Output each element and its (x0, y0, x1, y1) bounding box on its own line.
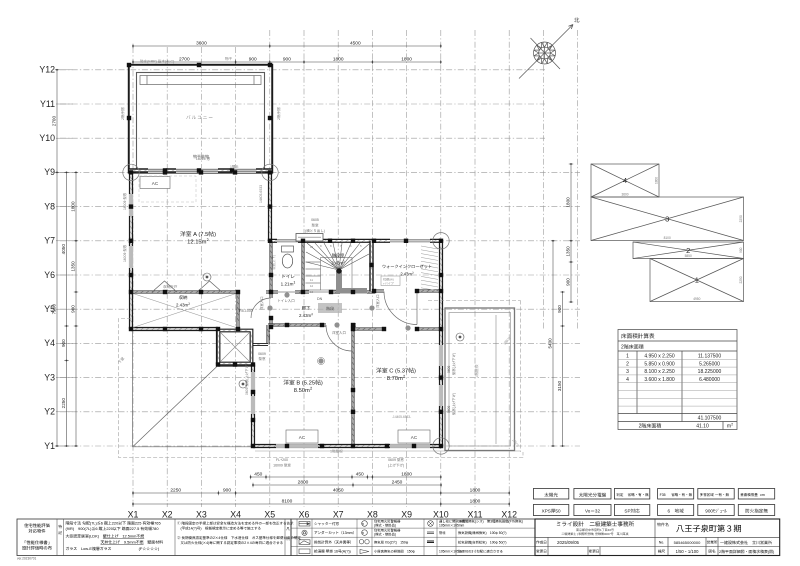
window left wall upper (129, 194, 134, 216)
svg-text:2.43m²: 2.43m² (400, 272, 414, 278)
interior wall room B step horizontal (253, 343, 268, 346)
WIC hatch band (421, 246, 438, 291)
AC dashed zone (139, 176, 196, 202)
interior wall room C top seg1 (353, 328, 384, 331)
svg-text:0609 型窓(上げ下げ): 0609 型窓(上げ下げ) (244, 364, 249, 395)
bottom dimension row 3 (132, 491, 510, 495)
door arc room B (326, 325, 352, 351)
svg-text:DN: DN (317, 297, 323, 302)
svg-text:585465000000: 585465000000 (674, 540, 701, 546)
svg-text:洋室入口: 洋室入口 (375, 294, 380, 308)
svg-text:8.50m²: 8.50m² (294, 385, 313, 394)
svg-text:1: 1 (626, 353, 629, 360)
legend icons col1 (299, 522, 310, 554)
exterior wall room B left (251, 365, 255, 447)
svg-text:Y11: Y11 (40, 97, 55, 110)
svg-text:8100: 8100 (664, 235, 671, 240)
svg-text:450: 450 (254, 471, 262, 478)
svg-text:ver.20230701: ver.20230701 (17, 556, 37, 561)
grid lines (60, 30, 580, 507)
svg-text:(上げ下げ): (上げ下げ) (388, 464, 404, 469)
svg-text:太陽光分電盤: 太陽光分電盤 (579, 492, 607, 498)
svg-text:型窓(上げ下げ): 型窓(上げ下げ) (451, 393, 456, 415)
balcony outer wall (129, 65, 272, 172)
window room C bottom (390, 444, 430, 449)
right balcony inner vertical (495, 315, 497, 444)
door arc room A entrance (251, 298, 271, 318)
svg-text:2025/09/05: 2025/09/05 (557, 540, 580, 546)
svg-text:5850: 5850 (685, 253, 692, 258)
svg-text:給湯器 壁掛 16号(A(?)): 給湯器 壁掛 16号(A(?)) (314, 548, 351, 554)
svg-text:2階手摺: 2階手摺 (120, 107, 126, 120)
svg-text:F35: F35 (660, 493, 666, 498)
svg-text:2.43m²: 2.43m² (176, 303, 190, 309)
svg-text:2階平面詳細図・面積求積表(図): 2階平面詳細図・面積求積表(図) (719, 549, 775, 555)
svg-text:1/50・1/100: 1/50・1/100 (676, 549, 699, 555)
svg-text:アンダーカット（13mm）: アンダーカット（13mm） (314, 530, 356, 536)
svg-text:防水(FRP) 笠木(ALC): 防水(FRP) 笠木(ALC) (140, 59, 174, 65)
svg-text:換気扇 XG(2穴) 150φ: 換気扇 XG(2穴) 150φ (374, 539, 409, 544)
svg-text:16015 窓: 16015 窓 (196, 157, 211, 162)
svg-text:Vo＝32: Vo＝32 (585, 509, 601, 515)
svg-text:物件名: 物件名 (657, 522, 669, 528)
svg-text:24時間換気(シス) 第3種換気設備(F7k換気): 24時間換気(シス) 第3種換気設備(F7k換気) (458, 519, 523, 524)
svg-text:収納: 収納 (179, 295, 188, 301)
svg-text:図名: 図名 (708, 549, 716, 555)
svg-text:縮尺: 縮尺 (658, 549, 666, 555)
window toilet top (277, 239, 298, 244)
svg-text:m²: m² (727, 423, 733, 430)
window Y9 left (148, 168, 166, 173)
svg-text:1.21m²: 1.21m² (281, 281, 296, 288)
svg-text:900: 900 (223, 487, 231, 494)
svg-text:1800: 1800 (401, 56, 412, 63)
1F roof hip diagonal (134, 365, 220, 447)
svg-text:18.225000: 18.225000 (698, 368, 722, 375)
AC box balcony (140, 177, 170, 189)
right dimension chain roof (569, 163, 573, 303)
svg-text:洋室入口: 洋室入口 (332, 331, 346, 336)
svg-text:一建設株式会社 立川営業所: 一建設株式会社 立川営業所 (720, 540, 772, 546)
interior wall room A right lower (270, 241, 273, 298)
left dimension chain outer (55, 69, 59, 447)
interior wall room C top seg2 (417, 328, 441, 331)
svg-text:4050: 4050 (61, 244, 67, 255)
svg-text:X7: X7 (333, 508, 344, 521)
circled mark at (207,277) (203, 273, 211, 281)
svg-text:2250: 2250 (170, 487, 181, 494)
hall gray highlight (318, 303, 342, 313)
svg-text:営業所: 営業所 (707, 540, 718, 546)
legend table frame (291, 519, 535, 556)
toilet sliding door (278, 291, 295, 293)
wall posts (127, 63, 443, 448)
exterior wall left (129, 172, 133, 329)
svg-text:洋室入口: 洋室入口 (259, 296, 264, 310)
area diagram rect 4 (591, 164, 659, 197)
bottom dimension row 2 (252, 483, 442, 487)
svg-text:X2: X2 (162, 508, 173, 521)
svg-text:4.950 x 2.250: 4.950 x 2.250 (644, 353, 675, 360)
svg-text:2階床面積: 2階床面積 (621, 343, 644, 350)
svg-text:R5-1000: R5-1000 (239, 309, 252, 314)
legend icons col3 (428, 521, 434, 527)
svg-text:階段: 階段 (326, 306, 334, 312)
svg-text:1800: 1800 (565, 197, 571, 208)
svg-text:2階手摺: 2階手摺 (276, 107, 282, 120)
exterior wall bottom rooms B C (253, 444, 441, 448)
svg-text:16009 型窓: 16009 型窓 (122, 192, 127, 210)
svg-text:5.265000: 5.265000 (699, 360, 720, 367)
window left wall lower (129, 246, 134, 268)
svg-text:特: 特 (58, 524, 62, 530)
svg-text:8100: 8100 (282, 498, 293, 505)
window right wall lower (439, 385, 444, 406)
svg-text:900: 900 (70, 305, 76, 313)
svg-text:Y2: Y2 (44, 405, 55, 418)
svg-text:-14405-6533-: -14405-6533- (392, 414, 411, 419)
spec block col C text (66, 521, 164, 553)
svg-text:3: 3 (665, 213, 669, 224)
svg-text:小屋裏換気の経路図 150φ: 小屋裏換気の経路図 150φ (374, 548, 415, 553)
interior wall stair bottom (331, 291, 375, 294)
vent circle outlined (317, 357, 324, 364)
svg-text:階段室: 階段室 (332, 253, 345, 259)
right balcony outer (445, 308, 515, 451)
svg-text:4950: 4950 (693, 296, 700, 301)
svg-text:給気設備(自然給気) 100φ 50(?): 給気設備(自然給気) 100φ 50(?) (458, 539, 507, 544)
svg-text:FL+200: FL+200 (276, 458, 288, 463)
svg-text:収納折戸: 収納折戸 (163, 284, 178, 290)
exterior wall room A right upper (268, 172, 272, 240)
closet X cross (133, 294, 236, 328)
svg-text:6.480000: 6.480000 (699, 376, 720, 383)
svg-text:1350: 1350 (565, 246, 571, 257)
svg-text:41.107500: 41.107500 (698, 415, 722, 422)
exterior wall right (439, 241, 443, 446)
svg-text:Y8: Y8 (44, 199, 55, 212)
svg-text:900: 900 (249, 56, 257, 63)
svg-text:4: 4 (626, 376, 629, 383)
svg-text:1800: 1800 (654, 177, 659, 184)
svg-text:1階屋根: 1階屋根 (330, 449, 343, 455)
1F roof edge solid (133, 331, 253, 447)
svg-text:X3: X3 (196, 508, 207, 521)
window right wall upper (439, 345, 444, 366)
svg-text:900: 900 (565, 278, 571, 286)
axis labels Y1-Y12 (39, 63, 55, 452)
svg-text:900: 900 (557, 305, 563, 313)
svg-text:例: 例 (286, 536, 290, 542)
svg-text:ウォークインクローゼット: ウォークインクローゼット (382, 264, 432, 270)
svg-text:トイレ入口: トイレ入口 (277, 299, 295, 304)
svg-text:16009 型窓: 16009 型窓 (122, 244, 127, 262)
area diagram rect 2 (633, 242, 744, 259)
svg-text:(9/R) 900(7L)≦6 蹴上220以下 踏面227.: (9/R) 900(7L)≦6 蹴上220以下 踏面227.5 有効幅780 (66, 526, 160, 532)
interior wall room B step vertical (267, 325, 270, 345)
closet bifold door triangles (152, 281, 222, 292)
svg-text:8.70m²: 8.70m² (387, 373, 406, 382)
svg-text:12.15m²: 12.15m² (187, 237, 209, 246)
left dimension chain inner (74, 172, 78, 447)
svg-text:AC: AC (411, 435, 418, 441)
toilet fixture (282, 246, 294, 252)
svg-text:No.: No. (659, 541, 665, 546)
svg-text:Y1: Y1 (44, 439, 55, 452)
svg-text:2800: 2800 (298, 479, 309, 486)
stair opening line (309, 291, 331, 293)
svg-text:注:2X6の3寸勾配に適合させる: 注:2X6の3寸勾配に適合させる (458, 548, 503, 553)
column circle at (131,172.4) (123, 164, 139, 180)
svg-text:2階床面積: 2階床面積 (639, 423, 662, 430)
svg-text:450: 450 (356, 471, 364, 478)
legend text col2 (374, 519, 415, 554)
svg-text:X6: X6 (299, 508, 310, 521)
svg-text:多雪区域: 多雪区域 (700, 493, 714, 498)
interior wall WIC bottom seg1 (374, 290, 384, 293)
svg-text:(平成14(?)号) 根拠規定表示に定める等で施工する: (平成14(?)号) 根拠規定表示に定める等で施工する (177, 527, 261, 532)
svg-text:3.600 x 1.800: 3.600 x 1.800 (644, 376, 675, 383)
interior wall room B C divider (352, 325, 355, 446)
svg-text:1350: 1350 (70, 261, 76, 272)
svg-text:記: 記 (58, 530, 62, 536)
svg-text:4050: 4050 (333, 487, 344, 494)
svg-text:41.10: 41.10 (696, 423, 709, 430)
title block frame (535, 519, 780, 556)
option boxes row 1 (533, 489, 568, 500)
svg-text:設計評価時の布: 設計評価時の布 (22, 546, 53, 552)
svg-text:1: 1 (695, 275, 699, 286)
window Y9 right (232, 168, 256, 173)
svg-text:6 地域: 6 地域 (668, 509, 685, 515)
svg-text:900ﾓｼﾞｭｰﾙ: 900ﾓｼﾞｭｰﾙ (705, 509, 727, 515)
interior wall room B top seg1 (268, 324, 326, 327)
svg-text:ガラス Low-E複層ガラス (F☆☆☆☆): ガラス Low-E複層ガラス (F☆☆☆☆) (66, 546, 160, 552)
svg-text:1階屋根: 1階屋根 (474, 364, 480, 378)
balcony handrail band (140, 76, 261, 85)
svg-text:Y10: Y10 (39, 131, 55, 144)
spec block col A text (22, 523, 53, 552)
column circle at (270,172.4) (262, 164, 278, 180)
svg-text:物干: 物干 (225, 56, 233, 62)
window room B left lower (251, 396, 256, 414)
svg-text:床面積計算表: 床面積計算表 (621, 332, 655, 340)
floor area table 床面積計算表 (618, 330, 737, 430)
svg-text:2.43m²: 2.43m² (299, 313, 313, 319)
svg-text:型窓: 型窓 (312, 224, 320, 229)
window room B bottom (276, 444, 318, 449)
1F roof eave solid line bottom (255, 450, 520, 452)
svg-text:11: 11 (310, 278, 313, 282)
closet box walls (219, 331, 252, 364)
svg-text:作成日: 作成日 (536, 540, 547, 546)
interior wall WIC bottom seg2 (417, 290, 441, 293)
north arrow compass (519, 25, 573, 79)
legend text col3/4 (439, 519, 523, 554)
svg-text:X5: X5 (264, 508, 275, 521)
svg-text:換気設備(機械換気) 100φ 50(?): 換気設備(機械換気) 100φ 50(?) (458, 530, 507, 535)
door arc room C / WIC (384, 292, 417, 325)
circled mark at (243,384) (239, 380, 247, 388)
vent circles (267, 292, 410, 363)
AC unit box (286, 430, 318, 443)
svg-text:管柱: 管柱 (439, 530, 446, 535)
svg-text:0609 型窓: 0609 型窓 (388, 458, 404, 463)
svg-text:型窓(上げ下げ): 型窓(上げ下げ) (451, 353, 456, 375)
svg-text:900: 900 (283, 56, 291, 63)
svg-text:3600: 3600 (621, 192, 628, 197)
svg-text:3600: 3600 (196, 40, 207, 47)
svg-text:7200: 7200 (51, 304, 57, 315)
svg-text:一有・無: 一有・無 (715, 493, 729, 498)
svg-text:1800: 1800 (333, 56, 344, 63)
svg-text:B: B (362, 522, 364, 526)
top dimension row 1 (132, 44, 442, 48)
stairs tread numbers (310, 244, 362, 294)
svg-text:1800: 1800 (401, 471, 412, 478)
svg-text:4500: 4500 (350, 40, 361, 47)
interior wall closet top (131, 291, 238, 294)
interior wall stair WIC shared (369, 241, 373, 291)
svg-text:防火指定無: 防火指定無 (745, 509, 768, 515)
svg-text:+パイプ: +パイプ (383, 282, 394, 286)
stairs fan treads (306, 243, 370, 290)
interior wall closet right (237, 292, 240, 329)
bottom-left spec block frame (17, 519, 291, 556)
svg-text:12: 12 (310, 284, 314, 288)
svg-text:2: 2 (626, 360, 629, 367)
circled mark at (460,337) (456, 333, 464, 341)
right balcony inner (449, 313, 511, 447)
window WIC top (390, 239, 430, 244)
svg-text:B: B (362, 531, 364, 535)
svg-text:X1: X1 (128, 508, 139, 521)
left dimension chain middle (64, 172, 68, 447)
exterior wall step left (216, 329, 220, 365)
svg-text:シャッター付窓: シャッター付窓 (314, 521, 340, 527)
bottom dimension row windows (250, 475, 442, 479)
svg-text:2250: 2250 (738, 215, 743, 222)
svg-text:AC: AC (152, 181, 159, 187)
svg-text:3: 3 (626, 368, 629, 375)
svg-text:浴室(上下): 浴室(上下) (271, 255, 276, 270)
svg-text:型窓: 型窓 (259, 357, 267, 362)
exterior wall step bottom (218, 362, 253, 366)
svg-text:0605: 0605 (311, 218, 319, 223)
exterior wall closet bottom (131, 327, 218, 331)
svg-text:900: 900 (61, 339, 67, 347)
window room B left upper (251, 372, 256, 390)
stairs newel dot (336, 268, 341, 273)
interior wall room B top seg2 (352, 324, 356, 327)
svg-text:Y7: Y7 (44, 234, 55, 247)
svg-text:二級建築士 (事務所登録) 登録第0007号 某川某真: 二級建築士 (事務所登録) 登録第0007号 某川某真 (561, 532, 628, 536)
area diagram rect 1 (650, 259, 744, 302)
svg-text:14405-6533: 14405-6533 (258, 185, 263, 203)
svg-text:5.850 x 0.900: 5.850 x 0.900 (644, 360, 675, 367)
svg-text:AC: AC (299, 435, 306, 441)
svg-text:2700: 2700 (179, 56, 190, 63)
svg-text:1800: 1800 (470, 487, 481, 494)
svg-text:X4: X4 (230, 508, 241, 521)
right dimension chain plan (551, 240, 555, 447)
exterior wall Y9 balcony side (129, 168, 272, 172)
svg-text:Y12: Y12 (39, 63, 55, 76)
svg-text:バルコニー: バルコニー (186, 115, 214, 121)
svg-text:SP対応: SP対応 (624, 509, 640, 515)
svg-text:(煙式・壁掛品): (煙式・壁掛品) (374, 532, 396, 537)
top dimension row 2 (132, 60, 442, 64)
svg-text:凡: 凡 (286, 527, 290, 532)
svg-text:900: 900 (738, 247, 743, 253)
window Y9 sliding door (176, 168, 218, 173)
svg-text:2700: 2700 (51, 116, 57, 127)
svg-text:北: 北 (574, 16, 580, 24)
svg-text:変更日: 変更日 (536, 549, 547, 555)
svg-text:換気計算外（天井裏等）: 換気計算外（天井裏等） (314, 539, 354, 545)
svg-text:省略・有・無: 省略・有・無 (628, 493, 649, 498)
svg-text:Y4: Y4 (44, 336, 55, 349)
area diagram rect 3 (591, 197, 744, 241)
svg-text:Y3: Y3 (44, 370, 55, 383)
svg-text:(横とり出し): (横とり出し) (305, 229, 325, 234)
svg-text:1間半: 1間半 (230, 164, 239, 169)
bay window 0605 (296, 234, 323, 242)
balcony inner wall (137, 73, 265, 173)
svg-text:天井仕上げ 9.5mm不燃 壁面材料: 天井仕上げ 9.5mm不燃 壁面材料 (66, 540, 164, 546)
AC unit box (398, 430, 430, 443)
svg-text:3150: 3150 (557, 380, 563, 391)
svg-text:判定: 判定 (616, 493, 624, 498)
svg-text:2250: 2250 (738, 276, 743, 283)
svg-text:トイレ: トイレ (281, 274, 295, 280)
svg-text:XPS厚50: XPS厚50 (542, 509, 561, 515)
bottom dimension row total (132, 502, 510, 506)
svg-text:Y9: Y9 (44, 165, 55, 178)
svg-text:ミライ設計 二級建築士事務所: ミライ設計 二級建築士事務所 (556, 520, 635, 528)
axis labels X1-X12 (128, 508, 518, 521)
interior wall toilet bottom seg2 (295, 291, 309, 294)
legend text col1 (314, 521, 356, 554)
svg-text:13: 13 (310, 290, 314, 294)
interior wall toilet bottom seg1 (266, 291, 278, 294)
svg-text:X9: X9 (401, 508, 412, 521)
column circle at (441,446) (433, 438, 449, 454)
svg-text:4: 4 (623, 175, 627, 186)
svg-text:1800: 1800 (470, 498, 481, 505)
svg-text:2450: 2450 (392, 479, 403, 486)
svg-text:11.137500: 11.137500 (698, 353, 721, 360)
svg-text:太陽光: 太陽光 (544, 492, 558, 498)
stairs center wall gray band (336, 270, 342, 293)
interior wall room A door jamb (270, 318, 273, 327)
svg-text:2250: 2250 (61, 398, 67, 409)
svg-text:10: 10 (310, 245, 314, 249)
svg-text:2.43m²: 2.43m² (331, 261, 345, 267)
svg-text:16009 型窓: 16009 型窓 (273, 464, 291, 469)
svg-text:廊下: 廊下 (302, 306, 311, 312)
svg-text:1800: 1800 (70, 201, 76, 212)
WIC shelf box (381, 276, 400, 286)
svg-text:省略・有・無: 省略・有・無 (671, 493, 692, 498)
svg-text:変更日: 変更日 (589, 549, 600, 555)
svg-text:8.100 x 2.250: 8.100 x 2.250 (644, 368, 675, 375)
spec block col D text (177, 522, 301, 547)
svg-text:cm: cm (760, 493, 765, 498)
svg-text:又は防火仕様(×4)毎に関する認定事項の2×4の毎日に適合さ: 又は防火仕様(×4)毎に関する認定事項の2×4の毎日に適合させる (177, 541, 283, 546)
1F roof eave dashed outline (119, 301, 524, 458)
exterior wall top Y7 (270, 239, 441, 243)
